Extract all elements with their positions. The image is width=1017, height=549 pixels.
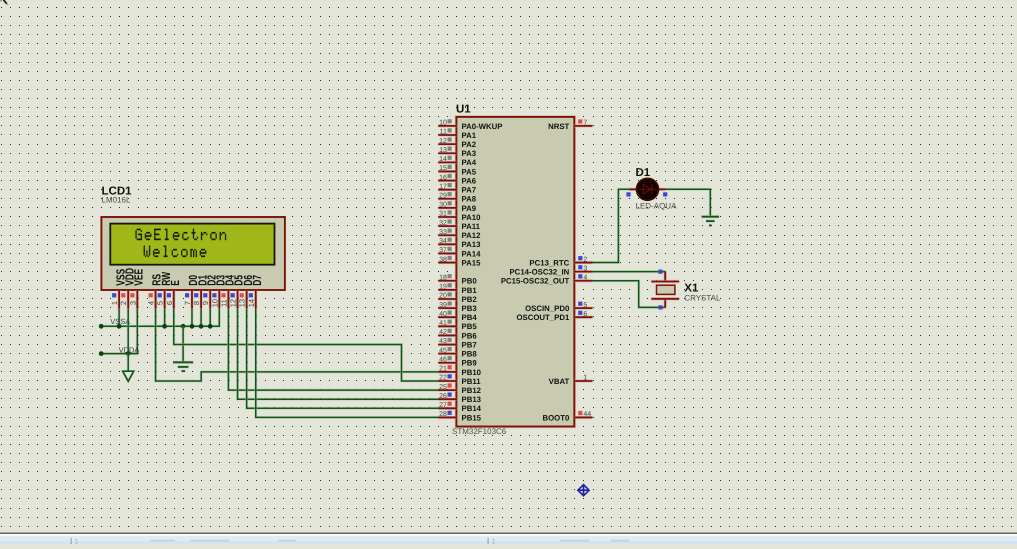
svg-text:LM016L: LM016L: [102, 196, 131, 205]
svg-text:PA14: PA14: [462, 249, 482, 258]
svg-text:6: 6: [583, 311, 587, 318]
svg-text:2: 2: [583, 256, 587, 263]
svg-text:PC14-OSC32_IN: PC14-OSC32_IN: [509, 268, 569, 277]
svg-text:PA11: PA11: [462, 222, 481, 231]
svg-text:E: E: [168, 280, 182, 286]
svg-text:14: 14: [439, 156, 447, 163]
svg-text:PA3: PA3: [462, 149, 477, 158]
svg-text:13: 13: [439, 147, 447, 154]
svg-text:OSCIN_PD0: OSCIN_PD0: [525, 304, 570, 313]
svg-text:45: 45: [439, 347, 447, 354]
svg-text:VDDA: VDDA: [119, 345, 140, 354]
svg-text:PA0-WKUP: PA0-WKUP: [462, 122, 503, 131]
svg-text:PA13: PA13: [462, 240, 482, 249]
svg-text:33: 33: [439, 229, 447, 236]
svg-text:1: 1: [583, 375, 587, 382]
svg-text:41: 41: [439, 320, 447, 327]
svg-text:PB11: PB11: [462, 377, 482, 386]
svg-text:PB8: PB8: [462, 350, 478, 359]
svg-text:13: 13: [238, 299, 247, 307]
svg-text:31: 31: [439, 211, 447, 218]
svg-text:39: 39: [439, 302, 447, 309]
svg-text:PC13_RTC: PC13_RTC: [529, 258, 569, 267]
svg-text:PA5: PA5: [462, 167, 477, 176]
svg-text:4: 4: [147, 301, 156, 305]
svg-text:20: 20: [439, 293, 447, 300]
svg-text:PB4: PB4: [462, 313, 478, 322]
svg-text:9: 9: [201, 301, 210, 305]
svg-text:STM32F103C6: STM32F103C6: [452, 427, 507, 436]
svg-text:LED-AQUA: LED-AQUA: [636, 201, 678, 210]
svg-text:21: 21: [439, 366, 447, 373]
svg-text:VEE: VEE: [132, 269, 146, 286]
svg-text:PB14: PB14: [462, 404, 482, 413]
svg-text:PA7: PA7: [462, 186, 477, 195]
svg-text:5: 5: [156, 301, 165, 305]
svg-text:14: 14: [247, 299, 256, 307]
svg-text:7: 7: [183, 301, 192, 305]
svg-text:PB12: PB12: [462, 386, 482, 395]
svg-text:PB0: PB0: [462, 277, 478, 286]
svg-text:8: 8: [192, 301, 201, 305]
svg-text:16: 16: [439, 174, 447, 181]
svg-text:PA4: PA4: [462, 158, 477, 167]
svg-text:PB6: PB6: [462, 331, 478, 340]
svg-text:40: 40: [439, 311, 447, 318]
svg-text:26: 26: [439, 393, 447, 400]
svg-text:PA1: PA1: [462, 131, 477, 140]
svg-text:18: 18: [439, 274, 447, 281]
svg-text:PB10: PB10: [462, 368, 482, 377]
svg-text:12: 12: [439, 138, 447, 145]
svg-text:34: 34: [439, 238, 447, 245]
svg-text:PA2: PA2: [462, 140, 477, 149]
svg-text:42: 42: [439, 329, 447, 336]
svg-text:D1: D1: [636, 167, 651, 179]
svg-text:PB2: PB2: [462, 295, 478, 304]
svg-text:PB15: PB15: [462, 413, 482, 422]
svg-text:12: 12: [229, 299, 238, 307]
svg-text:PA10: PA10: [462, 213, 482, 222]
svg-text:PA6: PA6: [462, 176, 477, 185]
svg-text:PA8: PA8: [462, 195, 477, 204]
svg-text:PB1: PB1: [462, 286, 478, 295]
svg-text:29: 29: [439, 192, 447, 199]
svg-text:OSCOUT_PD1: OSCOUT_PD1: [516, 313, 570, 322]
svg-text:43: 43: [439, 338, 447, 345]
svg-text:PB9: PB9: [462, 359, 478, 368]
svg-text:PA15: PA15: [462, 258, 482, 267]
svg-text:11: 11: [219, 299, 228, 307]
svg-text:PC15-OSC32_OUT: PC15-OSC32_OUT: [501, 277, 570, 286]
svg-text:27: 27: [439, 402, 447, 409]
svg-text:PA12: PA12: [462, 231, 482, 240]
svg-text:17: 17: [439, 183, 447, 190]
svg-text:15: 15: [439, 165, 447, 172]
svg-text:19: 19: [439, 284, 447, 291]
svg-text:30: 30: [439, 202, 447, 209]
svg-text:PB13: PB13: [462, 395, 482, 404]
svg-text:6: 6: [165, 301, 174, 305]
svg-text:10: 10: [210, 299, 219, 307]
svg-text:U1: U1: [456, 104, 471, 116]
svg-text:PA9: PA9: [462, 204, 477, 213]
svg-text:25: 25: [439, 384, 447, 391]
svg-text:CRYSTAL: CRYSTAL: [684, 294, 721, 303]
svg-text:28: 28: [439, 411, 447, 418]
svg-text:38: 38: [439, 256, 447, 263]
svg-text:22: 22: [439, 375, 447, 382]
svg-text:5: 5: [583, 302, 587, 309]
svg-text:PB5: PB5: [462, 322, 478, 331]
svg-text:32: 32: [439, 220, 447, 227]
svg-text:NRST: NRST: [548, 122, 569, 131]
svg-text:BOOT0: BOOT0: [542, 413, 570, 422]
svg-text:2: 2: [119, 301, 128, 305]
svg-text:46: 46: [439, 356, 447, 363]
svg-text:PB7: PB7: [462, 340, 477, 349]
svg-text:D7: D7: [250, 275, 264, 286]
svg-text:1: 1: [110, 301, 119, 305]
svg-text:44: 44: [583, 411, 591, 418]
svg-text:11: 11: [440, 129, 447, 136]
svg-text:10: 10: [439, 120, 447, 127]
svg-text:PB3: PB3: [462, 304, 478, 313]
svg-text:3: 3: [128, 301, 137, 305]
svg-text:VBAT: VBAT: [549, 377, 570, 386]
svg-text:4: 4: [583, 274, 587, 281]
svg-text:3: 3: [583, 265, 587, 272]
svg-text:37: 37: [439, 247, 447, 254]
svg-text:7: 7: [583, 120, 587, 127]
